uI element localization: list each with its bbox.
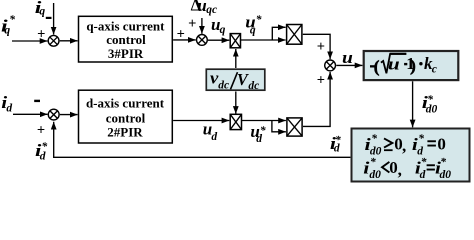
- svg-text:d: d: [6, 103, 12, 115]
- svg-text:u: u: [388, 55, 400, 74]
- node u_q label: [211, 15, 226, 36]
- wire S3 to d-axis box: [60, 114, 78, 116]
- wire S2 to multiplier M1: [208, 39, 229, 41]
- svg-text:u: u: [342, 48, 353, 67]
- wire fork up branch into squarer A: [272, 27, 285, 40]
- summer S2: [197, 35, 208, 46]
- svg-text:+: +: [37, 123, 45, 139]
- svg-text:,: ,: [402, 136, 406, 155]
- radical: [381, 54, 406, 73]
- svg-text:2#PIR: 2#PIR: [107, 125, 143, 140]
- svg-text:*: *: [421, 157, 427, 169]
- svg-text:q: q: [4, 24, 10, 36]
- wire vdc box up to M1: [235, 49, 237, 68]
- node u_d label: [203, 119, 218, 143]
- svg-text:d: d: [420, 169, 426, 181]
- slash: [231, 72, 238, 89]
- minus sign 1: [370, 65, 375, 67]
- svg-text:0: 0: [389, 158, 398, 177]
- wire S4 to kc block: [336, 64, 362, 66]
- svg-text:q: q: [39, 5, 45, 17]
- node minus sign at summer S1: [46, 17, 52, 19]
- node iq feedback label: [35, 0, 46, 17]
- svg-text:d0: d0: [369, 169, 381, 181]
- svg-text:d: d: [334, 143, 340, 155]
- svg-text:+: +: [177, 26, 185, 42]
- multiplier squarer B: [287, 118, 302, 136]
- wire squarer B to summer S4: [303, 72, 330, 127]
- multiplier M1: [230, 34, 240, 48]
- svg-text:*: *: [256, 14, 262, 26]
- svg-text:d0: d0: [426, 104, 438, 116]
- block decision id0 conditions: [352, 129, 470, 182]
- node i_d0* label: [422, 93, 438, 115]
- svg-text:0: 0: [437, 135, 446, 154]
- svg-text:+: +: [37, 27, 45, 43]
- svg-text:3#PIR: 3#PIR: [108, 46, 144, 61]
- svg-text:q: q: [250, 25, 256, 37]
- wire q-axis box to summer S2: [173, 39, 196, 41]
- svg-text:d: d: [40, 150, 46, 162]
- wire squarer A to summer S4: [303, 34, 330, 59]
- svg-text:*: *: [370, 157, 376, 169]
- svg-text:d-axis current: d-axis current: [86, 96, 165, 111]
- node id* label right: [330, 134, 341, 154]
- node iq* label: [1, 14, 15, 37]
- svg-text:d: d: [417, 145, 423, 157]
- node i_d label: [1, 94, 12, 115]
- svg-text:(: (: [374, 57, 380, 76]
- svg-text:q: q: [220, 24, 226, 36]
- wire i_d input: [13, 113, 48, 115]
- wire vdc box down to M2: [235, 92, 237, 114]
- summer S3: [48, 109, 59, 120]
- svg-text:c: c: [432, 64, 437, 76]
- block q-axis current control 3#PIR: [79, 16, 173, 62]
- node minus sign at summer S3: [34, 100, 40, 102]
- svg-text:*: *: [371, 133, 377, 145]
- node u_d* label: [250, 122, 266, 145]
- svg-text:*: *: [9, 14, 15, 26]
- wire d-axis box to multiplier M2: [173, 120, 229, 122]
- svg-text:qc: qc: [206, 4, 217, 16]
- wire fork down branch into squarer B: [272, 121, 286, 132]
- svg-text:+: +: [317, 73, 325, 89]
- svg-text:): ): [410, 56, 416, 75]
- minus sign 2: [404, 63, 407, 65]
- block -(sqrt(u)-1)*kc: [364, 51, 459, 80]
- svg-text:*: *: [418, 133, 424, 145]
- svg-text:*: *: [440, 157, 446, 169]
- svg-text:u: u: [197, 0, 206, 15]
- wire iq* input: [12, 40, 47, 42]
- svg-text:+: +: [188, 16, 196, 32]
- wire M2 to squarer B upper branch: [242, 120, 286, 122]
- svg-text:d0: d0: [370, 145, 382, 157]
- svg-text:d: d: [211, 131, 217, 143]
- multiplier squarer A: [287, 25, 302, 45]
- summer S4: [325, 60, 336, 71]
- svg-text:dc: dc: [218, 80, 229, 92]
- wire delta u_qc vertical into S2: [201, 18, 203, 34]
- summer S1: [48, 35, 59, 46]
- wire kc block down to decision box: [412, 81, 414, 127]
- wire iq vertical into S1: [53, 3, 55, 35]
- svg-text:d0: d0: [440, 169, 452, 181]
- node delta u_qc label: [191, 0, 218, 16]
- wire S1 to q-axis box: [60, 40, 78, 42]
- node u_q* label: [245, 12, 262, 36]
- svg-text:d: d: [256, 133, 262, 145]
- svg-text:dc: dc: [248, 80, 259, 92]
- multiplier M2: [230, 114, 241, 129]
- block d-axis current control 2#PIR: [79, 90, 173, 143]
- svg-text:control: control: [106, 110, 146, 125]
- block vdc/Vdc: [206, 68, 264, 92]
- svg-text:+: +: [317, 39, 325, 55]
- wire feedback decision box to summer S3: [54, 122, 351, 158]
- node id* label left: [35, 141, 48, 162]
- svg-text:,: ,: [398, 160, 402, 179]
- middle dot: [419, 62, 422, 65]
- wire M1 to squarer A lower branch: [241, 39, 286, 41]
